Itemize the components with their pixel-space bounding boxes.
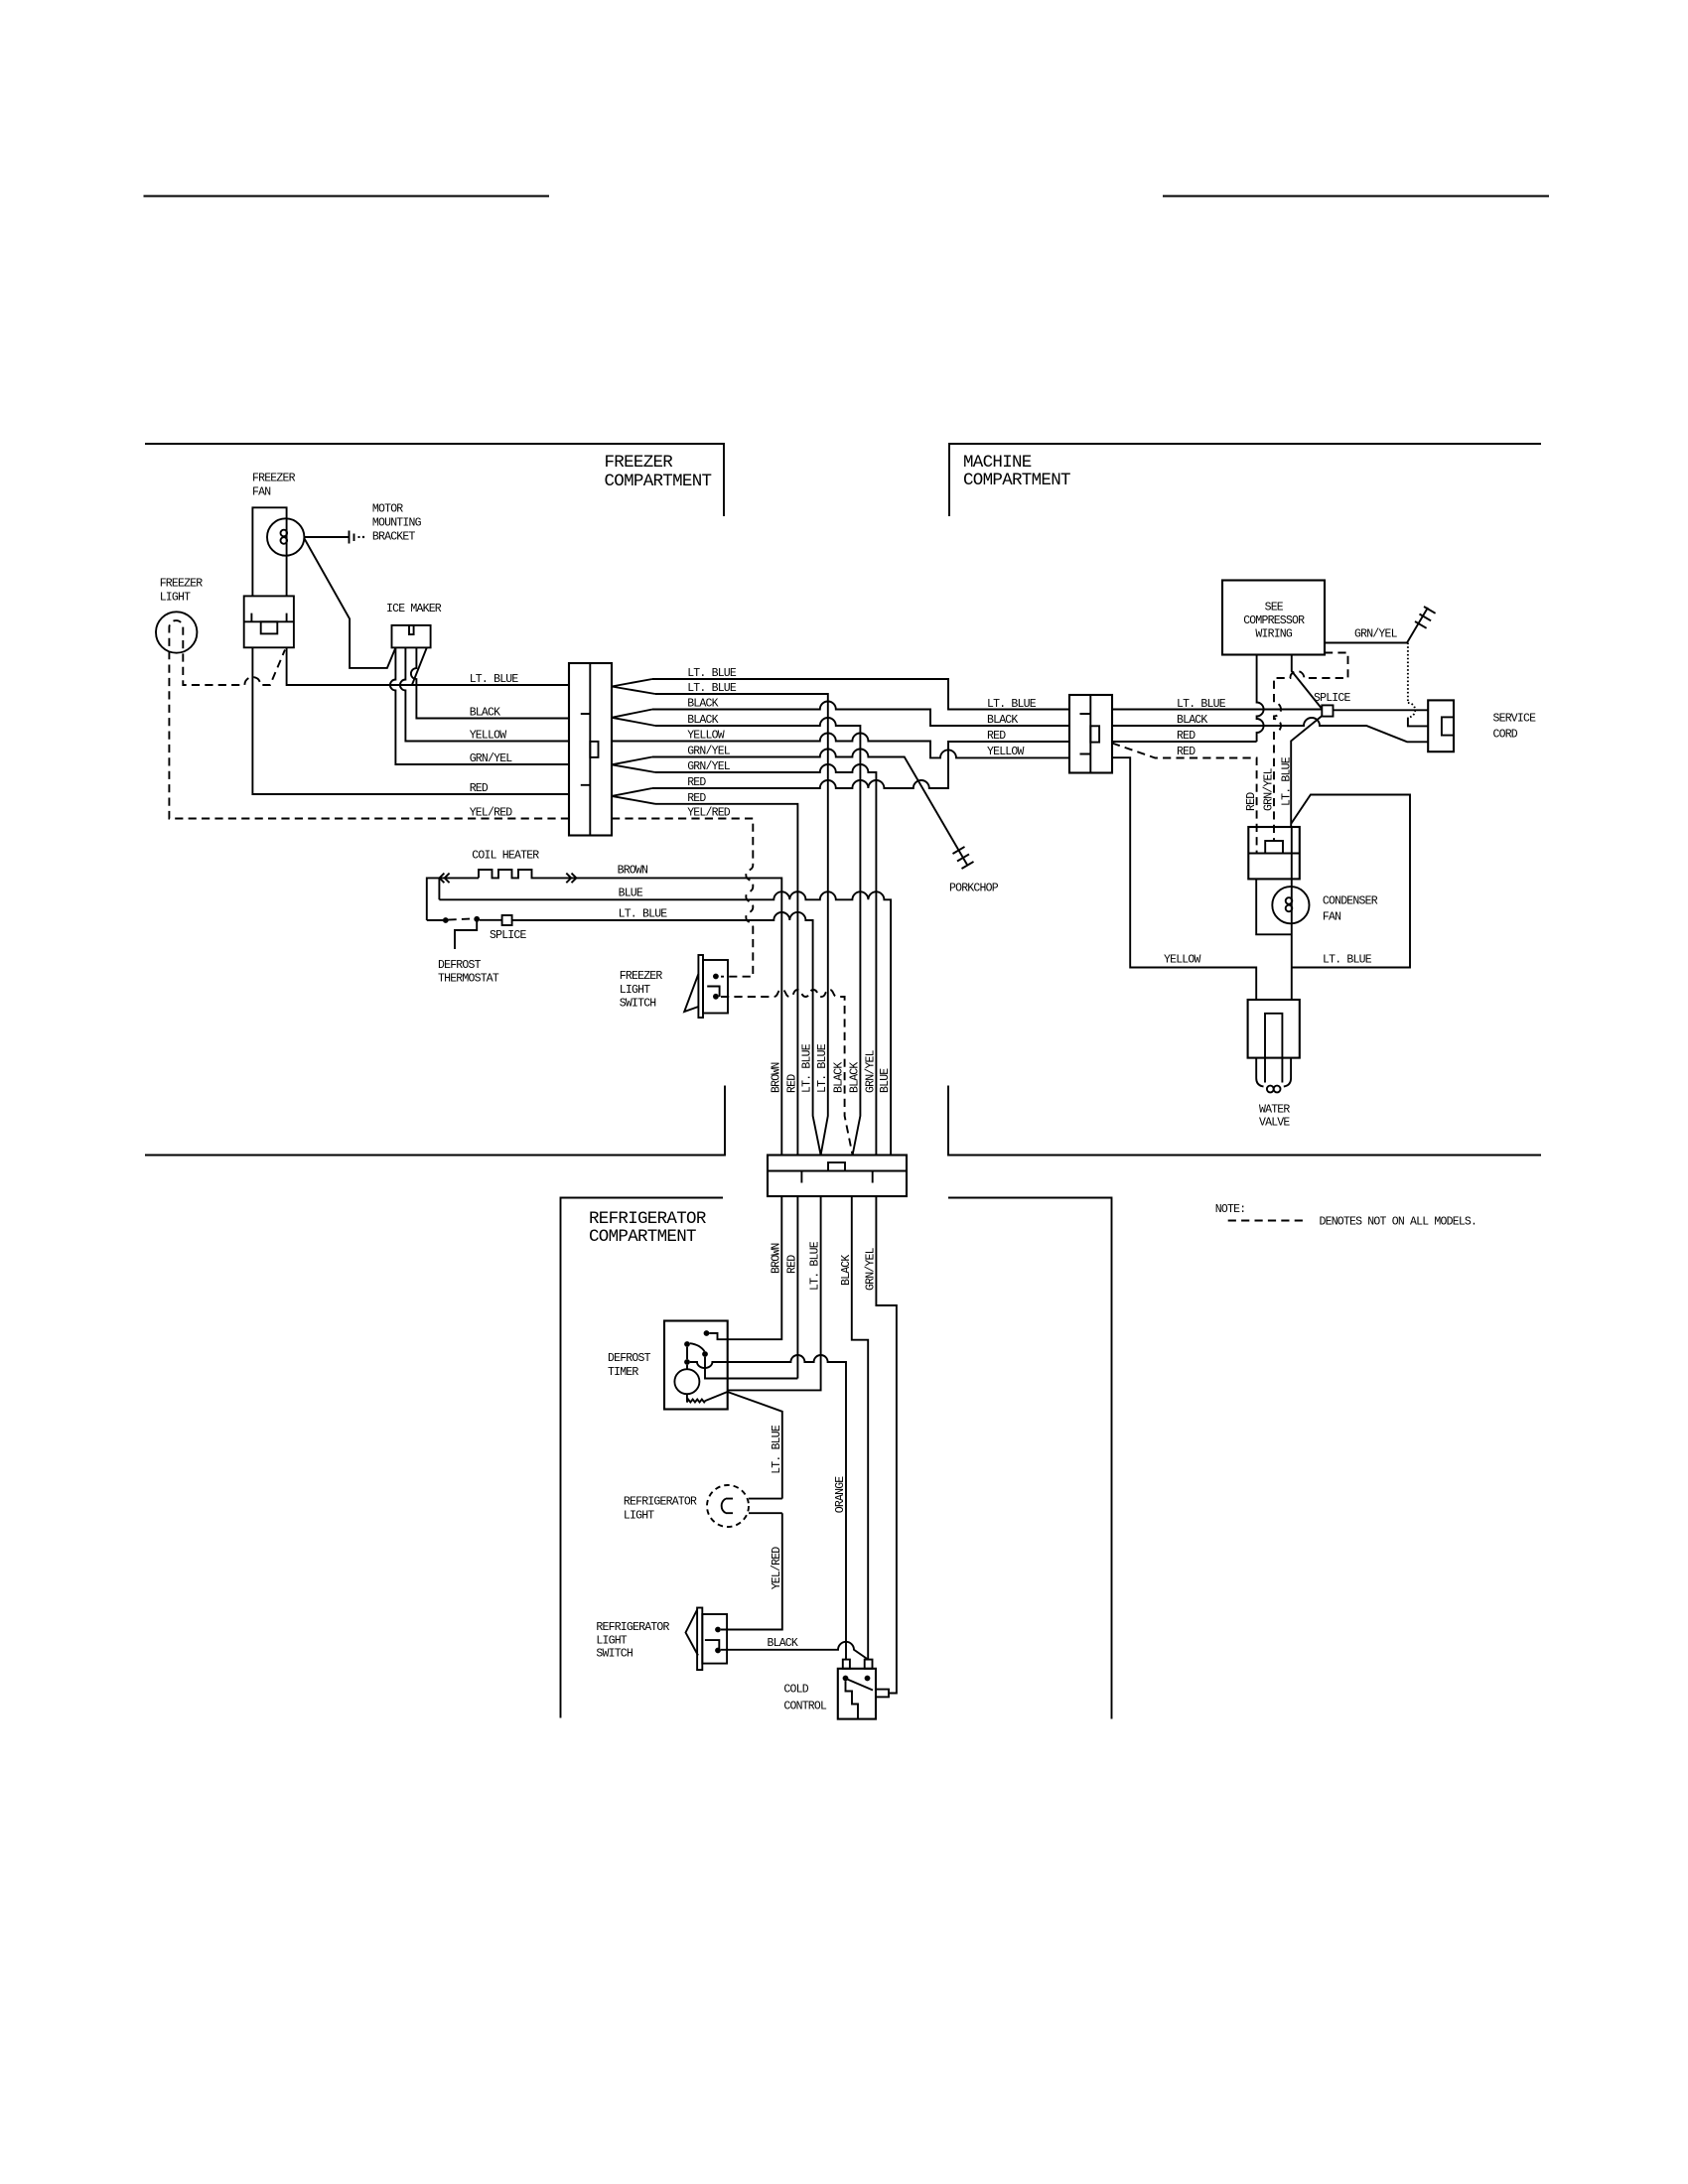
wire BLACK (J3 to cold control)	[852, 1196, 868, 1660]
wire YEL/RED dashed (J1 down to freezer light switch)	[612, 819, 753, 977]
wire BLUE (down to J3)	[439, 891, 891, 1155]
svg-text:TIMER: TIMER	[608, 1366, 638, 1379]
freezer fan motor B1	[267, 518, 304, 555]
wire BLACK 1 (J1 to J2)	[652, 702, 1069, 727]
svg-text:VALVE: VALVE	[1259, 1117, 1290, 1130]
wire LT. BLUE 1 (J1 to J2)	[652, 679, 1069, 710]
header rule right	[1163, 196, 1549, 198]
svg-text:LT. BLUE: LT. BLUE	[470, 673, 519, 686]
svg-text:GRN/YEL: GRN/YEL	[1354, 628, 1398, 641]
svg-text:LT. BLUE: LT. BLUE	[987, 698, 1037, 711]
wire LT. BLUE 2 (down to J3)	[655, 694, 828, 1156]
timer wire C to H2	[705, 1357, 797, 1379]
svg-text:FAN: FAN	[252, 486, 270, 499]
wire BLACK machine (J2 to service cord)	[1112, 718, 1428, 742]
svg-text:MOUNTING: MOUNTING	[372, 517, 422, 530]
refrigerator light	[707, 1485, 749, 1527]
ice maker pin 1 / wire GRN/YEL	[390, 647, 569, 764]
coil heater element	[479, 870, 565, 878]
splice to relay drop	[1291, 716, 1322, 827]
svg-text:LT. BLUE: LT. BLUE	[771, 1425, 783, 1474]
svg-text:BLACK: BLACK	[848, 1062, 861, 1093]
svg-text:FREEZER: FREEZER	[605, 453, 674, 473]
refrigerator compartment border	[561, 1198, 724, 1718]
wire BLACK 2 (down to J3)	[655, 718, 860, 1156]
wire RED dashed (J2 to overload)	[1112, 744, 1257, 854]
timer switch blade	[690, 1343, 705, 1351]
svg-text:BLUE: BLUE	[879, 1068, 892, 1093]
svg-text:LIGHT: LIGHT	[624, 1510, 654, 1523]
svg-text:COLD: COLD	[783, 1684, 808, 1697]
header rule left	[144, 196, 550, 198]
splice (defrost)	[502, 915, 512, 925]
wire LT. BLUE freezer	[287, 647, 569, 685]
freezer fan chamber	[252, 507, 286, 596]
wire BROWN (J3 to defrost timer)	[709, 1196, 781, 1339]
timer wire D / H1 to ORANGE	[690, 1355, 846, 1660]
svg-text:BLACK: BLACK	[833, 1062, 846, 1093]
overload / relay	[1248, 827, 1300, 879]
svg-text:GRN/YEL: GRN/YEL	[864, 1049, 877, 1093]
svg-text:SWITCH: SWITCH	[596, 1648, 633, 1661]
svg-text:RED: RED	[1177, 746, 1196, 758]
svg-text:LIGHT: LIGHT	[620, 984, 650, 997]
svg-text:LT. BLUE: LT. BLUE	[801, 1043, 814, 1093]
wire YEL/RED (light to switch)	[721, 1513, 782, 1629]
water valve	[1248, 1000, 1300, 1058]
wire LT. BLUE defrost (to J3)	[427, 912, 821, 1156]
cold control	[838, 1669, 876, 1719]
wire BLACK dashed (switch to J3)	[721, 990, 853, 1156]
wire splice to service cord	[1334, 709, 1429, 711]
motor mounting bracket	[304, 536, 349, 538]
svg-text:ICE MAKER: ICE MAKER	[386, 603, 442, 615]
svg-text:YEL/RED: YEL/RED	[470, 807, 513, 820]
porkchop ground hatches	[953, 847, 974, 869]
dashed GRN/YEL (compressor to overload)	[1274, 653, 1348, 841]
motor wire to ice maker	[305, 539, 396, 668]
svg-text:YELLOW: YELLOW	[1164, 954, 1201, 967]
svg-text:THERMOSTAT: THERMOSTAT	[438, 973, 499, 986]
wire RED (J3 to timer H2)	[796, 1196, 798, 1379]
svg-text:GRN/YEL: GRN/YEL	[1263, 767, 1276, 811]
svg-text:RED: RED	[987, 730, 1006, 743]
svg-text:FREEZER: FREEZER	[252, 473, 296, 485]
svg-text:CORD: CORD	[1493, 729, 1518, 742]
svg-text:COMPARTMENT: COMPARTMENT	[963, 471, 1070, 490]
svg-text:BLACK: BLACK	[768, 1637, 798, 1650]
condenser fan U link	[1256, 879, 1292, 934]
compressor drop wire (to RED)	[1257, 655, 1264, 743]
svg-text:BLACK: BLACK	[470, 707, 500, 720]
svg-text:MOTOR: MOTOR	[372, 503, 403, 516]
freezer light	[156, 612, 197, 652]
wire YEL/RED dashed from freezer light to connector J1	[169, 620, 569, 818]
svg-text:DEFROST: DEFROST	[438, 959, 482, 972]
wire GRN/YEL (J3 to cold control)	[876, 1196, 897, 1694]
freezer light switch	[698, 955, 703, 1018]
svg-text:ORANGE: ORANGE	[834, 1476, 847, 1514]
connector J2	[1069, 695, 1112, 773]
wire YELLOW machine (J2 to water valve)	[1112, 757, 1256, 1000]
svg-text:DEFROST: DEFROST	[608, 1352, 651, 1365]
svg-text:REFRIGERATOR: REFRIGERATOR	[596, 1621, 669, 1634]
dotted GRN/YEL drop to service cord	[1407, 643, 1409, 704]
defrost thermostat	[443, 917, 449, 923]
svg-text:LT. BLUE: LT. BLUE	[619, 908, 668, 921]
svg-text:MACHINE: MACHINE	[963, 453, 1032, 473]
compressor wiring box	[1222, 581, 1325, 655]
svg-text:LT. BLUE: LT. BLUE	[1280, 756, 1293, 806]
service cord plug	[1428, 700, 1454, 751]
svg-text:WATER: WATER	[1259, 1104, 1290, 1117]
coil heater chevrons right	[566, 874, 576, 884]
connector J1	[569, 663, 612, 836]
wire GRN/YEL to ground	[1325, 608, 1428, 643]
fan connector plug	[244, 596, 294, 647]
svg-text:GRN/YEL: GRN/YEL	[470, 752, 513, 765]
condenser fan motor	[1272, 887, 1309, 923]
connector J3	[768, 1156, 907, 1197]
wire LT. BLUE diagonal to refrigerator light	[728, 1392, 782, 1499]
machine compartment border	[949, 444, 1541, 516]
svg-text:CONDENSER: CONDENSER	[1323, 895, 1378, 908]
water valve prongs and coil	[1256, 1058, 1291, 1087]
compressor drop wire (to splice)	[1292, 655, 1323, 710]
J1 right crimp arrows	[612, 679, 655, 694]
wire RED 2 (down to J3)	[655, 804, 797, 1156]
svg-text:BRACKET: BRACKET	[372, 531, 416, 544]
ice maker pin 3 / wire BLACK	[411, 647, 569, 718]
wire LT. BLUE loop (overload to water valve)	[1291, 795, 1410, 968]
svg-text:YELLOW: YELLOW	[987, 746, 1025, 758]
ice maker pin 4 diagonal	[412, 647, 427, 685]
svg-text:BLACK: BLACK	[987, 714, 1018, 727]
ice maker	[392, 625, 431, 648]
svg-text:LIGHT: LIGHT	[596, 1635, 627, 1648]
svg-text:RED: RED	[1245, 792, 1258, 811]
svg-text:LIGHT: LIGHT	[160, 592, 191, 605]
svg-text:REFRIGERATOR: REFRIGERATOR	[589, 1209, 707, 1229]
wire BROWN (heater to J3 and defrost timer)	[565, 878, 781, 1155]
timer contacts	[704, 1330, 710, 1336]
svg-text:REFRIGERATOR: REFRIGERATOR	[624, 1496, 697, 1509]
wire RED freezer (fan leg)	[252, 647, 569, 794]
refrigerator light switch	[697, 1608, 702, 1671]
splice block	[1322, 705, 1333, 716]
svg-text:BLUE: BLUE	[619, 887, 643, 900]
svg-text:FAN: FAN	[1323, 911, 1340, 924]
wire YELLOW (J1 to J2)	[612, 734, 1069, 758]
wire LT. BLUE (J3 to timer)	[728, 1196, 821, 1390]
svg-text:DENOTES NOT ON ALL MODELS.: DENOTES NOT ON ALL MODELS.	[1320, 1216, 1477, 1229]
svg-text:FREEZER: FREEZER	[620, 970, 663, 983]
wire LT. BLUE machine (J2 to splice)	[1112, 709, 1322, 711]
svg-text:COMPARTMENT: COMPARTMENT	[605, 472, 712, 491]
svg-text:LT. BLUE: LT. BLUE	[816, 1043, 829, 1093]
svg-text:RED: RED	[470, 782, 489, 795]
svg-text:YELLOW: YELLOW	[470, 730, 507, 743]
wire BLACK (switch to cold control)	[721, 1642, 868, 1660]
svg-text:NOTE:: NOTE:	[1215, 1203, 1246, 1216]
svg-text:SPLICE: SPLICE	[1314, 692, 1351, 705]
svg-text:PORKCHOP: PORKCHOP	[949, 883, 999, 895]
wire RED machine (J2 to compressor drop)	[1112, 741, 1257, 743]
wire RED 1 (J1 to J2)	[652, 742, 1069, 788]
svg-text:COMPRESSOR: COMPRESSOR	[1243, 614, 1305, 627]
svg-text:FREEZER: FREEZER	[160, 578, 204, 591]
svg-text:BROWN: BROWN	[618, 865, 648, 878]
svg-text:YEL/RED: YEL/RED	[771, 1547, 783, 1590]
svg-text:COIL HEATER: COIL HEATER	[472, 850, 539, 863]
freezer compartment border	[145, 444, 724, 516]
defrost timer box	[664, 1321, 728, 1410]
coil heater loop left	[427, 878, 479, 920]
svg-text:SERVICE: SERVICE	[1493, 713, 1537, 726]
svg-text:SWITCH: SWITCH	[620, 998, 656, 1011]
svg-text:CONTROL: CONTROL	[783, 1701, 827, 1713]
timer wire B to D	[686, 1347, 688, 1359]
svg-text:BROWN: BROWN	[770, 1062, 782, 1093]
svg-text:LT. BLUE: LT. BLUE	[1323, 954, 1372, 967]
svg-text:SEE: SEE	[1265, 602, 1284, 614]
wire GRN/YEL 1 to porkchop ground	[652, 750, 967, 866]
coil heater chevrons left	[440, 874, 450, 884]
ice maker pin 2 / wire YELLOW	[400, 647, 569, 741]
wire GRN/YEL 2 (down to J3)	[655, 764, 876, 1156]
svg-text:WIRING: WIRING	[1255, 628, 1293, 641]
wire LT. BLUE through relay to condenser fan and valve	[1291, 827, 1293, 1000]
timer motor winding squiggle	[687, 1392, 728, 1403]
svg-text:RED: RED	[785, 1074, 798, 1093]
svg-text:COMPARTMENT: COMPARTMENT	[589, 1227, 696, 1247]
timer motor	[686, 1365, 688, 1369]
svg-text:SPLICE: SPLICE	[490, 929, 527, 942]
